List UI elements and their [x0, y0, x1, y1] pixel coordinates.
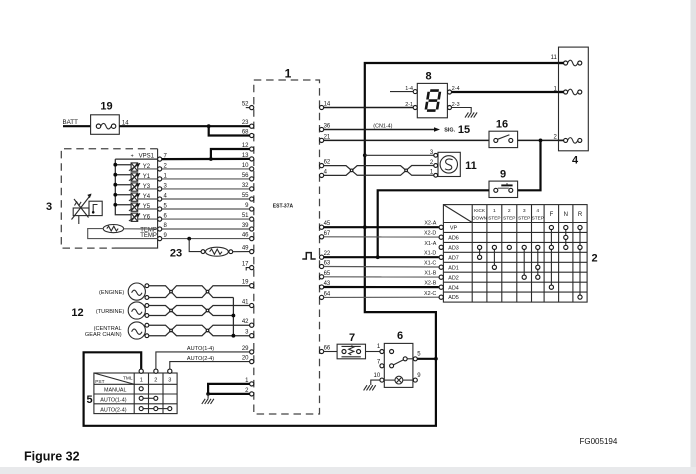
lamp in switch 6: [395, 376, 403, 384]
step table contact links: [550, 228, 552, 288]
wire pin 6 to U1 pin 51: [162, 218, 250, 220]
U1 right pin 63: [320, 264, 324, 268]
svg-text:(ENGINE): (ENGINE): [99, 290, 124, 296]
svg-text:17: 17: [242, 262, 249, 268]
svg-text:AUTO(1-4): AUTO(1-4): [100, 398, 126, 404]
valve drain stub: [78, 216, 80, 224]
selector contacts AUTO(2-4): [139, 407, 143, 411]
wire into row2: [559, 91, 564, 93]
seven segment digit: [426, 91, 440, 111]
wire U1 pin 14 to display 2-1: [324, 107, 413, 109]
U1 left pin 42: [250, 323, 254, 327]
svg-text:AD7: AD7: [448, 255, 459, 261]
junction sensor common at turbine: [232, 314, 236, 318]
lamp element row 2: [564, 90, 568, 94]
display pin 2-4: [448, 90, 452, 94]
U1 left pin 51: [250, 217, 254, 221]
U1 right pin 36: [320, 127, 324, 131]
U1 left pin 46: [250, 237, 254, 241]
valve-block pin 4 (Y4): [158, 197, 162, 201]
page right edge shading: [691, 0, 696, 474]
U1 left pin 32: [250, 187, 254, 191]
svg-text:AUTO(1-4): AUTO(1-4): [187, 346, 214, 352]
svg-text:R: R: [578, 212, 583, 218]
svg-text:14: 14: [324, 102, 331, 108]
svg-text:3: 3: [46, 201, 52, 213]
svg-text:32: 32: [242, 183, 249, 189]
proportional valve symbol: [73, 208, 89, 216]
U1 right pin 62: [320, 164, 324, 168]
valve-block pin 8: [158, 227, 162, 231]
wire pin 3 to U1 pin 32: [162, 188, 250, 190]
svg-text:1: 1: [493, 208, 496, 214]
svg-text:49: 49: [242, 246, 249, 252]
junction pin13/pin12 branch: [209, 157, 213, 161]
U1 right pin 21: [320, 138, 324, 142]
wire sensor-common vertical to U1 pin 3: [232, 298, 234, 336]
U1 left pin 29: [250, 350, 254, 354]
U1 right pin 45: [320, 225, 324, 229]
wire into row1: [559, 62, 564, 64]
net X1-C wire (AD1): [324, 266, 439, 269]
wire display 2-4 to lamp unit pin 1: [452, 91, 564, 93]
U1 left pin 39: [250, 227, 254, 231]
svg-text:11: 11: [465, 160, 477, 172]
switch 6 arm: [393, 360, 403, 365]
junction to VP row: [363, 225, 367, 229]
svg-text:STEP: STEP: [518, 216, 530, 221]
wire Y4 coil to pin: [138, 198, 158, 200]
resistor unit 7 box: [337, 344, 365, 359]
step table column lines: [471, 205, 473, 303]
junction to sensor 11 pin 3: [363, 153, 367, 157]
svg-text:X1-C: X1-C: [424, 261, 436, 267]
wire branch to U1 pin 12: [211, 149, 250, 159]
svg-text:PST: PST: [95, 379, 104, 385]
svg-text:10: 10: [242, 163, 249, 169]
wire Y2 coil to pin: [138, 168, 158, 170]
selector header diagonal: [94, 373, 134, 384]
svg-text:X1-A: X1-A: [424, 241, 436, 247]
ground (display): [465, 112, 477, 117]
solenoid valve Y2: [115, 164, 131, 166]
valve-block pin 2 (Y2): [158, 167, 162, 171]
svg-text:3: 3: [168, 378, 171, 384]
pulse signal icon: [302, 253, 315, 259]
net X2-B wire (AD4): [324, 286, 439, 288]
speed sensor TURBINE: [128, 302, 145, 319]
svg-text:63: 63: [324, 261, 331, 267]
svg-text:AD6: AD6: [448, 236, 459, 242]
display pin 1-4 stub wire: [390, 91, 413, 93]
svg-text:X2-A: X2-A: [424, 221, 436, 227]
svg-text:46: 46: [242, 233, 249, 239]
fuse F19 box: [91, 115, 120, 135]
U1 right pin 4: [320, 173, 324, 177]
svg-text:BATT: BATT: [63, 119, 79, 126]
svg-text:1: 1: [285, 67, 292, 81]
wire switch 6 pin 10 to ground: [371, 380, 380, 385]
valve-block pin 3 (Y3): [158, 187, 162, 191]
U1 left pin 13: [250, 157, 254, 161]
net X1-D wire (AD7): [324, 256, 439, 258]
svg-text:51: 51: [242, 213, 249, 219]
wire thermistor to pin 8: [124, 228, 158, 230]
svg-text:STEP: STEP: [503, 216, 515, 221]
lamp unit 4 box: [559, 47, 589, 151]
thermistor 23: [201, 250, 205, 254]
wire pin 5 to U1 pin 9: [162, 208, 250, 210]
switch 6 pin 10: [380, 378, 384, 382]
U1 right pin 22: [320, 255, 324, 259]
svg-text:42: 42: [242, 319, 249, 325]
svg-text:AD2: AD2: [448, 275, 459, 281]
wire switch 9 to AD7 net: [378, 190, 489, 257]
selector switch 5 table: [94, 373, 177, 414]
switch 6 pin 5: [413, 357, 417, 361]
selector contacts AUTO(1-4): [139, 396, 143, 400]
switch 6 pin 1: [380, 350, 384, 354]
svg-text:12: 12: [71, 307, 83, 319]
switch 16 contacts: [494, 138, 498, 142]
wire switch 16 to lamp unit pin 2: [518, 139, 564, 141]
svg-text:65: 65: [324, 271, 331, 277]
wire main power loop (pin11 of 4 / selector common): [84, 63, 564, 426]
svg-text:6: 6: [397, 330, 403, 342]
mode switch 6 box: [384, 343, 413, 387]
svg-text:64: 64: [324, 291, 331, 297]
wire branch to U1 pin 68: [209, 126, 250, 135]
step table 2 outline: [443, 205, 587, 303]
svg-text:AD3: AD3: [448, 246, 459, 252]
net X2-A wire (VP): [324, 226, 439, 228]
U1 pin 17 stub wire: [246, 268, 249, 271]
svg-text:4: 4: [572, 155, 579, 167]
U1 left pin 55: [250, 197, 254, 201]
twisted pair TURBINE sensor to pins 41/common: [149, 306, 250, 316]
switch 9 box: [489, 181, 518, 197]
U1 left pin 49: [250, 250, 254, 254]
switch 16 box: [489, 131, 518, 147]
svg-text:21: 21: [324, 134, 331, 140]
svg-text:AD5: AD5: [448, 295, 459, 301]
svg-text:20: 20: [242, 356, 249, 362]
sensor 11 symbol: [440, 156, 457, 173]
svg-text:1: 1: [140, 378, 143, 384]
wire Y5 coil to pin: [138, 208, 158, 210]
sensor 11 pins 3/2/1: [434, 153, 438, 157]
svg-text:(TURBINE): (TURBINE): [96, 309, 124, 315]
svg-text:5: 5: [86, 394, 92, 406]
solenoid valve Y6: [131, 213, 138, 221]
svg-text:2: 2: [154, 378, 157, 384]
solenoid valve Y4: [115, 194, 131, 196]
svg-text:DOWN: DOWN: [472, 216, 487, 221]
svg-text:EST-37A: EST-37A: [273, 204, 294, 210]
lamp element row 3: [564, 138, 568, 142]
valve-block pin 5 (Y5): [158, 207, 162, 211]
U1 left pin 12: [250, 147, 254, 151]
step table contacts: [549, 225, 553, 229]
U1 left pin 20: [250, 360, 254, 364]
sensor 11 box: [438, 152, 460, 176]
resistor 7 element: [342, 350, 346, 354]
svg-text:X2-C: X2-C: [424, 291, 436, 297]
wire U1 pin 21 to switch 16: [324, 139, 489, 141]
wire resistor 7 to switch 6 pin 1: [366, 351, 380, 353]
svg-text:67: 67: [324, 231, 331, 237]
U1 left pin 3: [250, 334, 254, 338]
svg-text:F: F: [550, 212, 554, 218]
U1 right pin 43: [320, 285, 324, 289]
page bottom edge shading: [0, 467, 696, 474]
valve-block pin 6 (Y6): [158, 217, 162, 221]
svg-text:55: 55: [242, 193, 249, 199]
svg-text:STEP: STEP: [532, 216, 544, 221]
svg-text:66: 66: [324, 346, 331, 352]
valve block 3 dashed outline: [61, 149, 157, 248]
junction to mode switch 6 pin 5: [434, 357, 438, 361]
wire pin 2 to U1 pin 10: [162, 168, 250, 170]
switch 6 pin 9: [413, 378, 417, 382]
wire U1 pin 36 signal SIG: [324, 129, 436, 131]
fuse F19 element: [96, 124, 100, 128]
svg-text:52: 52: [242, 102, 249, 108]
svg-text:16: 16: [496, 119, 508, 131]
svg-text:9: 9: [500, 169, 506, 181]
svg-text:2-1: 2-1: [405, 102, 413, 108]
wire display 2-3 to ground: [452, 108, 472, 113]
wire bus corner to valve-block pin 7: [115, 158, 157, 160]
svg-text:4: 4: [536, 208, 539, 214]
net X2-D wire (AD6): [324, 236, 439, 238]
U1 left pin 2: [250, 392, 254, 396]
wire thermistor 23 to U1 pin 49: [233, 251, 250, 253]
U1 left pin 10: [250, 167, 254, 171]
wire pin 4 to U1 pin 55: [162, 198, 250, 200]
svg-text:Figure 32: Figure 32: [24, 450, 80, 464]
wire thermistor loop to pin 9: [88, 229, 158, 239]
step table header diagonal: [443, 205, 472, 223]
speed sensor ENGINE: [128, 283, 145, 300]
U1 left pin 1: [250, 382, 254, 386]
ground (switch 6): [364, 385, 376, 390]
U1 pin 52 stub wire: [246, 107, 250, 109]
U1 right pin 67: [320, 235, 324, 239]
display 8 box: [417, 83, 447, 117]
U1 valve-block pin 7 (VPS1): [158, 157, 162, 161]
svg-text:8: 8: [426, 71, 432, 83]
wire pin 8 to U1 pin 39: [162, 228, 250, 230]
wire pin 9 to U1 pin 46: [162, 238, 250, 240]
solenoid valve Y5: [115, 204, 131, 206]
U1 right pin 64: [320, 295, 324, 299]
solenoid valve Y1: [115, 174, 131, 176]
wire junction to sensor 11 pin 3: [365, 154, 434, 156]
U1 left pin 9: [250, 207, 254, 211]
svg-text:11: 11: [551, 55, 558, 61]
wire U1 pin 20 AUTO(2-4) to selector col 3: [170, 362, 250, 370]
wire Y6 coil to pin: [138, 218, 158, 220]
thermistor TEMP (box 3): [103, 225, 123, 233]
twisted pair GEAR sensor to pins 42/3: [149, 325, 250, 336]
svg-text:36: 36: [324, 124, 331, 130]
selector contacts MANUAL: [139, 387, 143, 391]
U1 right pin 14: [320, 105, 324, 109]
U1 right pin 65: [320, 275, 324, 279]
U1 left pin 68: [250, 133, 254, 137]
net X2-C wire (AD5): [324, 296, 439, 298]
U1 left pin 41: [250, 303, 254, 307]
U1 left pin 56: [250, 177, 254, 181]
svg-text:X1-D: X1-D: [424, 251, 436, 257]
svg-text:X2-B: X2-B: [424, 281, 436, 287]
valve block 3 solid right/bottom edge: [115, 149, 158, 248]
wire U1 pins 1-2 to ground: [208, 384, 250, 394]
wire BATT to fuse: [63, 125, 91, 127]
svg-text:STEP: STEP: [488, 216, 500, 221]
wire into row3: [559, 139, 564, 141]
svg-text:10: 10: [374, 373, 381, 379]
svg-text:AUTO(2-4): AUTO(2-4): [187, 356, 214, 362]
svg-text:VP: VP: [450, 226, 458, 232]
lamp element row 1: [564, 61, 568, 65]
wire pin 66 to resistor 7: [324, 351, 337, 353]
controller U1 dashed outline: [254, 80, 320, 414]
junction switch 9 to X1-D wire: [376, 255, 380, 259]
svg-text:2: 2: [591, 253, 597, 265]
wire fuse to U1 pin 23: [119, 125, 249, 127]
svg-text:AD4: AD4: [448, 285, 459, 291]
U1 left pin 23: [250, 124, 254, 128]
wire Y3 coil to pin: [138, 188, 158, 190]
U1 left pin 17: [250, 266, 254, 270]
svg-text:2: 2: [508, 208, 511, 214]
switch 6 pin 7: [380, 364, 384, 368]
display pin 2-3: [448, 106, 452, 110]
valve-block pin 1 (Y1): [158, 177, 162, 181]
switch 9 contacts: [494, 188, 498, 192]
step table row lines: [443, 222, 587, 224]
twisted pair ENGINE sensor to pins 19/common: [149, 286, 250, 298]
svg-text:AD1: AD1: [448, 265, 459, 271]
svg-text:3: 3: [523, 208, 526, 214]
svg-text:19: 19: [242, 280, 249, 286]
wire Y1 coil to pin: [138, 178, 158, 180]
junction kickdown net: [539, 139, 543, 143]
wire switch 6 pin 5 to power loop: [417, 358, 436, 360]
svg-text:KICK: KICK: [474, 208, 486, 213]
U1 pin 66: [320, 349, 324, 353]
junction at ground stub: [206, 392, 210, 396]
wire junction down to switch 9: [518, 140, 541, 190]
junction sensor common at pin 3 wire: [232, 334, 236, 338]
speed sensor CENTRAL: [128, 322, 145, 339]
svg-text:(CN1-4): (CN1-4): [373, 124, 392, 130]
svg-text:62: 62: [324, 160, 331, 166]
U1 left pin 19: [250, 284, 254, 288]
wire pin 1 to U1 pin 56: [162, 178, 250, 180]
svg-text:23: 23: [170, 248, 182, 260]
svg-text:39: 39: [242, 223, 249, 229]
svg-text:FG005194: FG005194: [580, 437, 618, 446]
svg-text:N: N: [564, 212, 568, 218]
wire U1 pin 29 AUTO(1-4) to selector col 2: [156, 352, 250, 369]
svg-text:56: 56: [242, 173, 249, 179]
net X1-B wire (AD2): [324, 276, 439, 278]
svg-text:SIG.: SIG.: [444, 128, 455, 134]
valve-block pin 9: [158, 237, 162, 241]
svg-text:X2-D: X2-D: [424, 231, 436, 237]
wire junction down to thermistor 23: [189, 239, 201, 252]
svg-text:15: 15: [458, 124, 470, 136]
wire VPS1 supply bus: [115, 159, 131, 215]
svg-text:7: 7: [349, 332, 355, 344]
wire VPS1 to U1 pin 13: [162, 158, 250, 160]
svg-text:AUTO(2-4): AUTO(2-4): [100, 407, 126, 413]
U1 left pin 52: [250, 106, 254, 110]
svg-text:19: 19: [100, 101, 112, 113]
svg-text:29: 29: [242, 346, 249, 352]
ground (U1 pins 1-2): [207, 394, 209, 399]
selector terminal stubs: [139, 369, 143, 373]
twisted pair U1 pins 62/4 to sensor 11: [324, 166, 434, 176]
junction on pin-23 wire: [207, 124, 211, 128]
svg-text:(CENTRAL: (CENTRAL: [94, 326, 122, 332]
svg-text:41: 41: [242, 300, 249, 306]
svg-text:GEAR CHAIN): GEAR CHAIN): [85, 332, 122, 338]
junction on pin-46 wire: [187, 237, 191, 241]
svg-text:MANUAL: MANUAL: [104, 388, 126, 394]
solenoid valve Y3: [115, 184, 131, 186]
svg-text:X1-B: X1-B: [424, 271, 436, 277]
svg-text:TML: TML: [123, 375, 133, 381]
